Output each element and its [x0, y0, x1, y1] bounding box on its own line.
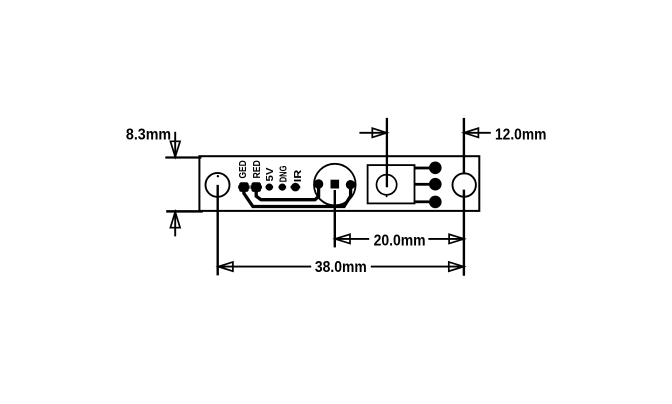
8.3mm bottom arrow: [170, 212, 180, 237]
J1 circle bottom tick: [386, 195, 388, 197]
svg-text:12.0mm: 12.0mm: [495, 126, 546, 143]
trace from pad GED to U1 right pad: [244, 185, 351, 207]
IR sensor body U1 (big circle): [314, 164, 356, 206]
J1 pad middle: [429, 178, 442, 191]
connector pad 4 (GND): [279, 184, 287, 191]
J1 inner circle: [377, 175, 397, 195]
38.0mm right arrow: [371, 262, 464, 271]
U1 right pad: [346, 180, 355, 189]
U1 left pad: [314, 179, 323, 188]
J1 lead stub middle: [415, 183, 430, 186]
connector pad 2 (RED): [251, 182, 262, 192]
board outline: [199, 156, 479, 211]
extension line 12.0mm left: [386, 118, 388, 187]
hole H1 center line: [216, 185, 218, 276]
U1 middle pad: [331, 180, 340, 189]
trace from pad RED to U1 left pad: [256, 184, 318, 200]
20.0mm right arrow: [428, 234, 464, 243]
svg-text:8.3mm: 8.3mm: [126, 126, 171, 143]
12.0mm right arrow: [464, 128, 491, 137]
mounting hole H2 (right): [453, 173, 476, 196]
12.0mm left arrow: [359, 128, 386, 137]
LED holder J1 (rectangle): [368, 165, 415, 203]
J1 lead stub bottom: [415, 200, 430, 203]
svg-text:5V: 5V: [264, 168, 276, 182]
svg-text:IR: IR: [292, 169, 304, 182]
J1 pad bottom: [429, 196, 442, 209]
hole H2 center line lower: [463, 190, 465, 276]
J1 pad top: [429, 162, 442, 175]
svg-text:38.0mm: 38.0mm: [315, 259, 367, 276]
extension line 8.3mm top: [165, 156, 201, 158]
extension line 8.3mm bottom: [166, 210, 203, 213]
center mark of hole H1: [217, 175, 219, 177]
connector pad 1 (GED): [238, 182, 249, 192]
J1 lead stub top: [415, 167, 430, 170]
svg-text:GED: GED: [237, 160, 249, 179]
extension line 20.0mm (sensor center line): [334, 190, 336, 247]
mounting hole H1 (left): [206, 173, 230, 197]
connector pad 3 (5V): [266, 184, 274, 191]
svg-text:20.0mm: 20.0mm: [374, 232, 426, 249]
8.3mm top arrow: [170, 132, 180, 157]
svg-text:DNG: DNG: [277, 166, 289, 183]
svg-text:RED: RED: [251, 160, 263, 179]
extension line 12.0mm right / hole H2 center line upper: [463, 118, 465, 174]
20.0mm left arrow: [335, 234, 369, 243]
38.0mm left arrow: [218, 262, 311, 271]
connector pad 5 (IR): [291, 183, 301, 192]
